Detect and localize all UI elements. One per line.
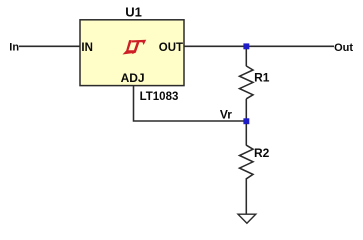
svg-text:Out: Out (334, 42, 353, 54)
op-amp U1 regulator body LT1083 (80, 20, 184, 86)
svg-text:ADJ: ADJ (121, 71, 145, 85)
svg-text:R2: R2 (254, 146, 270, 160)
wire Vr node to R2 top (245, 124, 247, 146)
resistor R2 (240, 145, 254, 179)
node junction at OUT (243, 43, 249, 49)
svg-text:U1: U1 (125, 4, 142, 19)
ground (238, 214, 256, 223)
node junction Vr (243, 118, 249, 124)
wire OUT pin to Out (184, 45, 334, 47)
LT logo (Linear Technology) letter T (131, 40, 146, 55)
LT logo (Linear Technology) letter L (123, 40, 136, 54)
svg-text:In: In (9, 42, 19, 54)
wire node to R1 top (245, 49, 247, 66)
wire R1 bottom to Vr node (245, 99, 247, 121)
resistor R1 (240, 66, 254, 99)
svg-text:R1: R1 (254, 70, 270, 84)
wire R2 bottom to ground (245, 178, 247, 214)
wire In to regulator IN pin (19, 45, 80, 47)
wire ADJ pin down and right to Vr node (134, 86, 247, 121)
svg-text:IN: IN (81, 42, 93, 54)
svg-text:LT1083: LT1083 (140, 91, 179, 103)
svg-text:OUT: OUT (159, 42, 183, 54)
svg-text:Vr: Vr (220, 107, 232, 121)
